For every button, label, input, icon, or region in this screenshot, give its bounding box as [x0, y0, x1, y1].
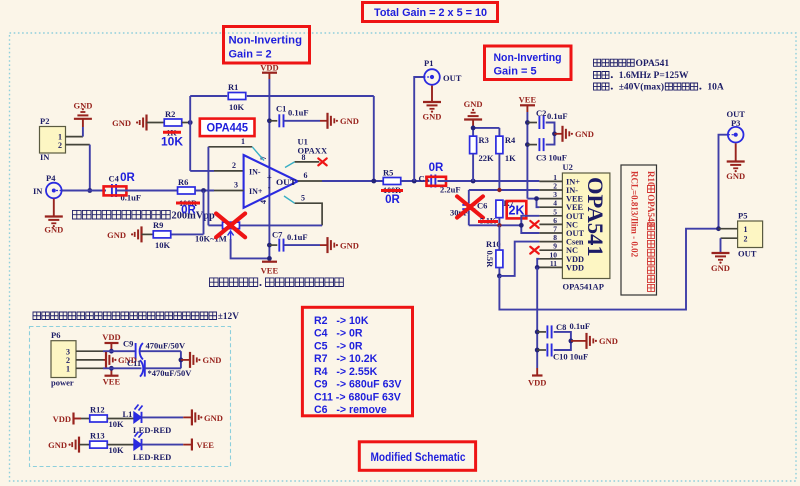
- svg-text:Modified Schematic: Modified Schematic: [371, 452, 467, 464]
- junction C2C3 GND: [552, 131, 557, 136]
- svg-text:GND: GND: [203, 355, 222, 365]
- old value of R2 struck out: [163, 129, 181, 138]
- U2 pin 8 number: [553, 233, 557, 242]
- svg-text:R5: R5: [383, 168, 393, 178]
- junction output / feedback: [371, 179, 376, 184]
- note: bias resistor: [210, 278, 344, 287]
- annotation red box on C5: [427, 177, 447, 186]
- annotation box: modification list: [302, 307, 412, 416]
- svg-text:VDD: VDD: [53, 414, 71, 424]
- annotation box: Non-Inverting Gain = 5: [485, 46, 572, 80]
- svg-text:GND: GND: [204, 413, 223, 423]
- resistor R1: [228, 82, 246, 100]
- junction R7/R10: [497, 223, 501, 227]
- svg-text:C2: C2: [536, 108, 546, 118]
- U2 pin 2 number: [553, 182, 557, 191]
- ground at P6 pin2: [104, 352, 137, 368]
- value C10 10uF: [553, 352, 588, 362]
- annotation 0R for C5: [429, 162, 444, 174]
- annotation box 2K for R7: [507, 201, 527, 218]
- svg-text:VEE: VEE: [261, 266, 279, 276]
- svg-text:C11: C11: [127, 358, 141, 368]
- ground right of L1: [192, 409, 223, 425]
- junction right leg: [179, 358, 184, 363]
- svg-text:P5: P5: [738, 211, 747, 221]
- svg-text:P4: P4: [46, 173, 56, 183]
- svg-text:VDD: VDD: [102, 332, 120, 342]
- svg-text:R3: R3: [479, 135, 489, 145]
- annotation 0R for C4: [120, 172, 135, 184]
- power VEE at P6: [103, 368, 121, 386]
- wire R9 column: [203, 191, 205, 235]
- svg-text:OPA548: OPA548: [646, 194, 656, 226]
- wire OUT pins join: [521, 216, 539, 233]
- annotation box: Modified Schematic: [359, 442, 475, 471]
- svg-text:R4 -> 2.55K: R4 -> 2.55K: [314, 366, 378, 378]
- note: amplifier info line 2: [594, 71, 689, 81]
- resistor R9: [153, 220, 171, 238]
- svg-text:LED-RED: LED-RED: [133, 452, 171, 462]
- junction C8: [535, 330, 540, 335]
- wire L2 to VEE: [142, 444, 192, 446]
- label LED-RED for L1: [133, 425, 171, 435]
- ground for P5: [711, 253, 730, 273]
- svg-text:1K: 1K: [505, 153, 516, 163]
- svg-text:GND: GND: [107, 230, 126, 240]
- note: amplifier info line 1: [594, 59, 670, 69]
- svg-text:0.1uF: 0.1uF: [547, 111, 568, 121]
- svg-text:IN: IN: [33, 186, 43, 196]
- svg-text:VDD: VDD: [528, 378, 546, 388]
- pin 1 wire of U1: [208, 147, 252, 226]
- wire P3 drop: [719, 135, 729, 229]
- wire R8 wiper to VEE: [231, 239, 270, 258]
- old value R7 struck: [478, 217, 498, 226]
- value R1 10K: [229, 102, 245, 112]
- svg-text:GND: GND: [423, 112, 442, 122]
- svg-text:R9: R9: [153, 220, 163, 230]
- svg-text:VDD: VDD: [566, 263, 584, 272]
- note: amplifier info line 3: [594, 82, 724, 93]
- value C3 10uF: [536, 153, 567, 163]
- pin 1 label: [241, 137, 245, 146]
- svg-text:GND: GND: [340, 116, 359, 126]
- U2 pin 8 name Csen: [566, 238, 584, 247]
- wire feedback bottom: [469, 224, 522, 226]
- svg-text:U2: U2: [563, 162, 573, 172]
- wire to GND: [571, 340, 587, 342]
- no-connect X on U2 pin 9: [530, 247, 538, 254]
- wire IN- net: [469, 189, 540, 191]
- wire R1 to output feedback corner: [247, 95, 374, 97]
- capacitor C7: [269, 230, 283, 252]
- U2 pin 4 number: [553, 199, 557, 208]
- resistor R7: [496, 198, 515, 218]
- U2 pin 2 stub: [539, 189, 562, 191]
- svg-text:RCL=0.813/Ilim - 0.02: RCL=0.813/Ilim - 0.02: [630, 171, 640, 258]
- svg-text:P3: P3: [731, 118, 740, 128]
- svg-text:C5 -> 0R: C5 -> 0R: [314, 340, 363, 352]
- wire P4 to C4: [62, 190, 106, 192]
- wire R13 to LED L2: [107, 444, 134, 446]
- svg-text:Non-Inverting: Non-Inverting: [494, 52, 562, 64]
- U2 pin 6 number: [553, 216, 557, 225]
- wire right leg C9C11: [180, 351, 182, 368]
- svg-text:0R: 0R: [181, 205, 196, 217]
- power VEE right of L2: [192, 439, 214, 451]
- ground right of C1: [328, 113, 359, 129]
- capacitor C9 (electrolytic): [123, 339, 143, 360]
- svg-text:OUT: OUT: [443, 73, 462, 83]
- wire P1 drop: [414, 77, 423, 181]
- U2 pin 3 stub: [539, 198, 562, 200]
- LED L2: [134, 432, 143, 451]
- resistor R10: [485, 239, 503, 268]
- U2 part OPA541AP: [563, 282, 604, 292]
- svg-text:0.1uF: 0.1uF: [287, 232, 308, 242]
- svg-text:C8: C8: [556, 322, 566, 332]
- svg-text:OUT: OUT: [738, 249, 757, 259]
- pin 1 cyan lead: [252, 147, 264, 161]
- svg-text:0.1uF: 0.1uF: [288, 108, 309, 118]
- junction C10: [535, 348, 540, 353]
- value R12 10K: [109, 419, 125, 429]
- ground above R3: [464, 99, 483, 128]
- svg-text:10K: 10K: [109, 445, 125, 455]
- svg-text:0R: 0R: [385, 194, 400, 206]
- junction VDD / C1: [267, 118, 272, 123]
- U2 designator: [563, 162, 573, 172]
- connector P4: [33, 173, 62, 198]
- ground right of C9C11: [190, 352, 221, 368]
- ground left of R13: [48, 437, 90, 453]
- svg-text:GND: GND: [48, 440, 67, 450]
- svg-text:4: 4: [259, 200, 268, 204]
- wire pin3 pin4 tie: [537, 199, 540, 208]
- svg-text:GND: GND: [575, 129, 594, 139]
- svg-text:-: -: [268, 183, 271, 192]
- wire R5 to C5: [401, 180, 430, 182]
- U1 designator: [298, 137, 308, 147]
- svg-text:10K: 10K: [161, 135, 183, 149]
- U2 pin 3 number: [553, 190, 557, 199]
- capacitor C2: [527, 108, 546, 129]
- svg-text:C4: C4: [109, 174, 120, 184]
- wire R2 to IN- column: [182, 122, 190, 124]
- svg-text:GND: GND: [711, 263, 730, 273]
- wire U2 VDD down: [536, 267, 538, 368]
- svg-text:R10: R10: [486, 239, 501, 249]
- svg-text:Gain = 5: Gain = 5: [494, 66, 537, 78]
- U2 pin 7 stub: [539, 232, 562, 234]
- svg-text:0.1uF: 0.1uF: [570, 321, 591, 331]
- wire C9 to right leg: [140, 350, 181, 352]
- pin 6 label: [304, 171, 308, 180]
- svg-text:10A: 10A: [707, 83, 724, 93]
- capacitor C10: [537, 344, 551, 357]
- note: module supply: [33, 312, 239, 322]
- pin 8 label: [302, 153, 306, 162]
- svg-text:±12V: ±12V: [218, 312, 239, 322]
- wire R7 bottom to feedback: [498, 218, 500, 226]
- resistor R13: [90, 431, 108, 449]
- value C5 2.2uF: [440, 185, 461, 195]
- svg-text:VEE: VEE: [103, 377, 121, 387]
- capacitor C8: [537, 322, 566, 338]
- U2 pin 4 stub: [539, 206, 562, 208]
- svg-text:C10 10uF: C10 10uF: [553, 352, 588, 362]
- annotation box: Total Gain = 2 x 5 = 10: [363, 3, 498, 22]
- svg-text:OUT: OUT: [276, 177, 296, 187]
- wire P5 pin2 to GND: [720, 238, 722, 253]
- wire left segment of R1 net: [190, 95, 227, 97]
- U2 pin 1 name IN+: [566, 177, 580, 186]
- pin 2 label: [232, 161, 236, 170]
- no-connect X on U2 pin 6: [530, 221, 538, 228]
- power VEE stage2: [519, 95, 537, 113]
- LED L1: [123, 405, 143, 424]
- wire U1 output: [298, 180, 384, 182]
- svg-text:0R: 0R: [429, 162, 444, 174]
- svg-text:GND: GND: [599, 336, 618, 346]
- capacitor C1: [269, 104, 286, 128]
- value R8 10K~1M: [195, 234, 227, 244]
- U2 pin 1 number: [553, 173, 557, 182]
- U2 pin 2 name IN-: [566, 186, 578, 195]
- value C7 0.1uF: [287, 232, 308, 242]
- annotation box OPA445: [200, 119, 255, 137]
- U2 pin 11 name VDD: [566, 263, 584, 272]
- wire pin1 column to R8: [208, 224, 222, 226]
- svg-text:2: 2: [744, 235, 748, 244]
- value C9 470uF/50V: [146, 341, 187, 351]
- capacitor C5: [419, 174, 436, 188]
- U2 pin 11 number: [550, 259, 557, 268]
- svg-text:0.5R: 0.5R: [485, 251, 495, 269]
- svg-text:VEE: VEE: [519, 95, 537, 105]
- annotation 10K for R2: [161, 135, 183, 149]
- ground for P2 pin 1: [73, 101, 92, 128]
- pin 2 stub of P2: [66, 144, 90, 146]
- U2 pin 6 stub: [539, 223, 562, 225]
- svg-text:*470uF/50V: *470uF/50V: [148, 368, 193, 378]
- pin 3 stub of P6: [76, 350, 103, 352]
- U2 pin 8 stub: [539, 241, 562, 243]
- U2 pin 9 stub: [539, 249, 562, 251]
- annotation 0R for R6: [181, 205, 196, 217]
- op-amp U1 triangle: [244, 155, 298, 208]
- power VDD at R12: [53, 413, 90, 425]
- svg-text:10K: 10K: [109, 419, 125, 429]
- pin 1 stub of P2: [66, 136, 83, 138]
- wire VDD pins join: [537, 259, 539, 268]
- svg-text:OPA541: OPA541: [583, 177, 608, 257]
- junction C8C10 GND: [569, 339, 574, 344]
- wire VEE rail vertical: [526, 112, 528, 199]
- junction pin3 tie: [534, 196, 539, 201]
- U2 pin 9 name NC: [566, 246, 578, 255]
- pin 2 stub of P5: [721, 237, 738, 239]
- junction R3 on output net: [471, 179, 476, 184]
- junction on input net at P2 branch: [87, 188, 92, 193]
- svg-text:11: 11: [550, 259, 557, 268]
- pin 2 stub of P6: [76, 359, 104, 361]
- pin 5 cyan lead: [284, 196, 295, 203]
- junction R4/R7/IN-: [497, 188, 501, 192]
- svg-text:0.1uF: 0.1uF: [121, 193, 142, 203]
- U2 pin 6 name NC: [566, 220, 578, 229]
- wire Csen to R10 bottom: [499, 242, 539, 276]
- svg-text:0R: 0R: [120, 172, 135, 184]
- wire right leg to GND: [181, 359, 190, 361]
- note box: R10 current limit formula: [621, 165, 657, 295]
- svg-text:22K: 22K: [479, 153, 495, 163]
- junction R2 / IN- column: [188, 120, 193, 125]
- connector P3: [726, 109, 745, 143]
- value R4 1K: [505, 153, 516, 163]
- U1 part OPAXX: [298, 146, 328, 156]
- junction R5 / P1: [412, 179, 417, 184]
- wire pin2 horizontal: [190, 170, 243, 172]
- svg-text:8: 8: [302, 153, 306, 162]
- connector P2: [40, 116, 66, 162]
- wire C2 C3 join: [546, 123, 555, 145]
- svg-text:2: 2: [58, 141, 62, 150]
- ground right of C8C10: [587, 333, 618, 349]
- svg-text:5: 5: [301, 194, 305, 203]
- pin 3 label: [234, 181, 238, 190]
- connector P1: [424, 58, 462, 85]
- wire C5 to U2 pin1: [438, 180, 540, 182]
- svg-text:R2: R2: [165, 109, 175, 119]
- IC U2 OPA541 body: [562, 173, 610, 279]
- svg-text:GND: GND: [726, 171, 745, 181]
- svg-text:1: 1: [744, 225, 748, 234]
- wire GND rail: [473, 128, 499, 136]
- svg-text:GND: GND: [44, 225, 63, 235]
- capacitor C6 (removed): [462, 201, 487, 211]
- svg-text:R7 -> 10.2K: R7 -> 10.2K: [314, 353, 378, 365]
- resistor R2: [164, 109, 182, 126]
- svg-text:Total Gain = 2 x 5 = 10: Total Gain = 2 x 5 = 10: [374, 7, 487, 19]
- svg-text:R1: R1: [228, 82, 238, 92]
- wire VEE to pin3: [527, 198, 539, 200]
- ground left of R2: [112, 115, 164, 131]
- svg-text:10K: 10K: [155, 240, 171, 250]
- U2 pin 1 stub: [539, 180, 562, 182]
- wire P2 pin2 down to input net: [89, 145, 91, 191]
- label LED-RED for L2: [133, 452, 171, 462]
- value C6 30pF: [450, 208, 468, 218]
- value R3 22K: [479, 153, 495, 163]
- ground right of C7: [328, 237, 359, 253]
- removal X on C6: [457, 196, 483, 217]
- svg-text:R12: R12: [90, 405, 105, 415]
- svg-text:1: 1: [66, 365, 70, 374]
- svg-text:VDD: VDD: [260, 62, 278, 72]
- U2 pin 9 number: [553, 242, 557, 251]
- wire R3 to output net: [472, 154, 474, 181]
- svg-text:470uF/50V: 470uF/50V: [146, 341, 187, 351]
- annotation box: Non-Inverting Gain = 2: [224, 27, 310, 64]
- junction VEE node: [267, 256, 272, 261]
- svg-text:1: 1: [241, 137, 245, 146]
- junction VEE/C11: [109, 366, 114, 371]
- value R9 10K: [155, 240, 171, 250]
- annotation 0R for R5: [385, 194, 400, 206]
- U2 pin 7 number: [553, 225, 557, 234]
- potentiometer R8: [223, 222, 240, 239]
- connector P6: [51, 330, 76, 388]
- svg-text:C7: C7: [272, 230, 283, 240]
- resistor R3: [470, 135, 489, 154]
- junction OUT join: [519, 223, 524, 228]
- svg-text:C9: C9: [123, 339, 133, 349]
- junction R10 bottom: [497, 274, 502, 279]
- junction C7 node: [267, 243, 272, 248]
- U2 pin 5 number: [553, 207, 557, 216]
- svg-text:P6: P6: [51, 330, 60, 340]
- value C11 470uF/50V: [148, 368, 193, 378]
- wire R10 top: [498, 225, 500, 250]
- wire C11 to right leg: [145, 367, 181, 369]
- capacitor C11 (electrolytic): [127, 358, 145, 377]
- U2 pin 7 name OUT: [566, 229, 584, 238]
- svg-text:LED-RED: LED-RED: [133, 425, 171, 435]
- connector P5: [738, 211, 763, 259]
- pin 1 stub of P5: [719, 228, 738, 230]
- svg-text:10K: 10K: [229, 102, 245, 112]
- ground for P1: [423, 86, 442, 122]
- svg-text:OPA541: OPA541: [636, 59, 670, 69]
- U2 pin 3 name VEE: [566, 195, 584, 204]
- svg-text:Gain = 2: Gain = 2: [229, 49, 272, 61]
- capacitor C3: [527, 138, 543, 151]
- pin 1 stub of P6: [76, 367, 103, 369]
- wire R9 to column: [172, 233, 204, 235]
- resistor R6: [178, 177, 196, 194]
- wire R10 bottom: [498, 268, 500, 276]
- svg-text:+: +: [267, 173, 272, 183]
- svg-text:OPA445: OPA445: [207, 121, 249, 135]
- U2 pin 4 name VEE: [566, 203, 584, 212]
- junction P3/P5: [716, 226, 721, 231]
- pin 8 cyan lead: [285, 162, 295, 168]
- wire feedback vertical to output: [373, 96, 375, 181]
- wire C8 C10 join: [554, 332, 571, 350]
- svg-text:IN-: IN-: [249, 168, 261, 177]
- old value R6 100R struck: [176, 199, 200, 208]
- svg-text:OPA541AP: OPA541AP: [563, 282, 604, 292]
- value C4 0.1uF: [121, 193, 142, 203]
- no-connect X on pin 8: [318, 158, 326, 165]
- svg-text:R2 -> 10K: R2 -> 10K: [314, 315, 369, 327]
- U2 pin 10 name VDD: [566, 255, 584, 264]
- U2 pin 10 number: [550, 250, 558, 259]
- svg-text:power: power: [51, 378, 74, 388]
- svg-text:R4: R4: [505, 135, 516, 145]
- power VDD at P6: [102, 332, 120, 351]
- old value R5 100R struck: [381, 186, 403, 195]
- svg-text:IN+: IN+: [249, 187, 263, 196]
- svg-text:R6: R6: [178, 177, 188, 187]
- junction C3: [525, 142, 530, 147]
- wire L1 to GND: [142, 416, 192, 418]
- junction GND rail: [471, 126, 476, 131]
- wire R8 to pin5 leg: [240, 224, 323, 226]
- wire P2 pin1 to GND: [82, 127, 84, 137]
- U2 pin 10 stub: [539, 258, 562, 260]
